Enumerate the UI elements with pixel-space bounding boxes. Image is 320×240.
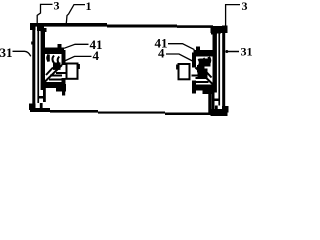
bearing right wall lower right — [192, 81, 196, 94]
bearing housing stem left — [43, 88, 46, 102]
right cap bottom block — [211, 109, 228, 116]
svg-text:3: 3 — [54, 0, 60, 13]
right cap channel bottom — [215, 106, 218, 112]
left cap channel head — [37, 27, 44, 32]
end cap 3 right (mirrored) — [176, 26, 228, 117]
leader for 4 right — [166, 54, 194, 62]
left cap channel bottom — [40, 103, 43, 109]
tube 1 bottom wall — [30, 108, 211, 115]
bearing housing stem right — [212, 91, 215, 115]
leader for 3 right — [226, 5, 240, 27]
bearing right wall upper right — [192, 53, 196, 68]
right cap channel tick — [215, 99, 221, 102]
end cap 3 left — [29, 23, 66, 110]
svg-text:31: 31 — [241, 45, 253, 59]
bearing housing top arm left — [43, 48, 65, 55]
right cap filler under bar — [211, 26, 228, 33]
left cap head — [30, 23, 36, 30]
leader for 4 left — [65, 56, 92, 61]
bearing 4 filler lower right — [198, 69, 208, 79]
shaft pocket bump right — [176, 65, 178, 70]
svg-text:31: 31 — [0, 45, 13, 60]
svg-text:4: 4 — [93, 48, 100, 63]
bearing 4 filler upper right — [200, 59, 211, 67]
bearing 4 hatch blob right — [197, 65, 205, 72]
leader for 31 right — [228, 51, 240, 53]
tube 1 top wall — [30, 23, 213, 28]
bearing housing bottom arm right — [194, 85, 216, 91]
bearing 4 lower blob left — [56, 84, 66, 92]
svg-text:4: 4 — [158, 46, 165, 61]
right cap head — [222, 26, 228, 33]
retaining ring 41 knob right — [196, 47, 200, 52]
right cap channel head — [214, 29, 222, 34]
shaft pocket 41 rectangle right — [179, 64, 190, 79]
left cap channel right bar top — [41, 28, 47, 32]
left cap channel tick — [38, 96, 44, 99]
leader for 1 — [66, 5, 85, 24]
leader for 41 right — [168, 44, 195, 50]
leader for 31 left — [13, 51, 31, 56]
left cap outer foot — [29, 104, 36, 111]
bearing housing top arm right — [194, 50, 216, 57]
right cap outer foot — [222, 106, 229, 113]
bearing right wall upper left — [62, 50, 66, 65]
right cap outer wall — [222, 26, 225, 113]
shaft pocket 41 rectangle left — [67, 64, 78, 79]
right cap channel right bar top — [211, 31, 217, 35]
bearing right wall lower left — [62, 78, 66, 91]
bearing tab left — [62, 91, 65, 96]
bearing 4 hatching right — [192, 57, 214, 85]
shaft pocket bump left — [78, 64, 80, 69]
right cap channel left line — [218, 34, 220, 106]
bearing 4 hatch blob left — [53, 63, 61, 70]
svg-text:1: 1 — [86, 0, 92, 13]
left cap channel right bar — [41, 28, 45, 90]
bearing 4 hatching left — [45, 55, 67, 83]
left cap outer wall bump — [31, 42, 32, 45]
leader dot 31 right — [225, 50, 228, 53]
left cap outer wall — [32, 23, 35, 110]
bearing tab right — [208, 94, 211, 114]
leader for 41 left — [64, 44, 89, 48]
bearing housing bottom arm left — [43, 82, 65, 88]
right cap channel right bar — [213, 31, 217, 93]
svg-text:3: 3 — [242, 0, 248, 13]
retaining ring 41 knob left — [58, 44, 62, 49]
left cap channel left line — [37, 31, 39, 103]
leader for 3 left — [37, 4, 52, 23]
bearing 4 lower blob right — [203, 87, 213, 95]
